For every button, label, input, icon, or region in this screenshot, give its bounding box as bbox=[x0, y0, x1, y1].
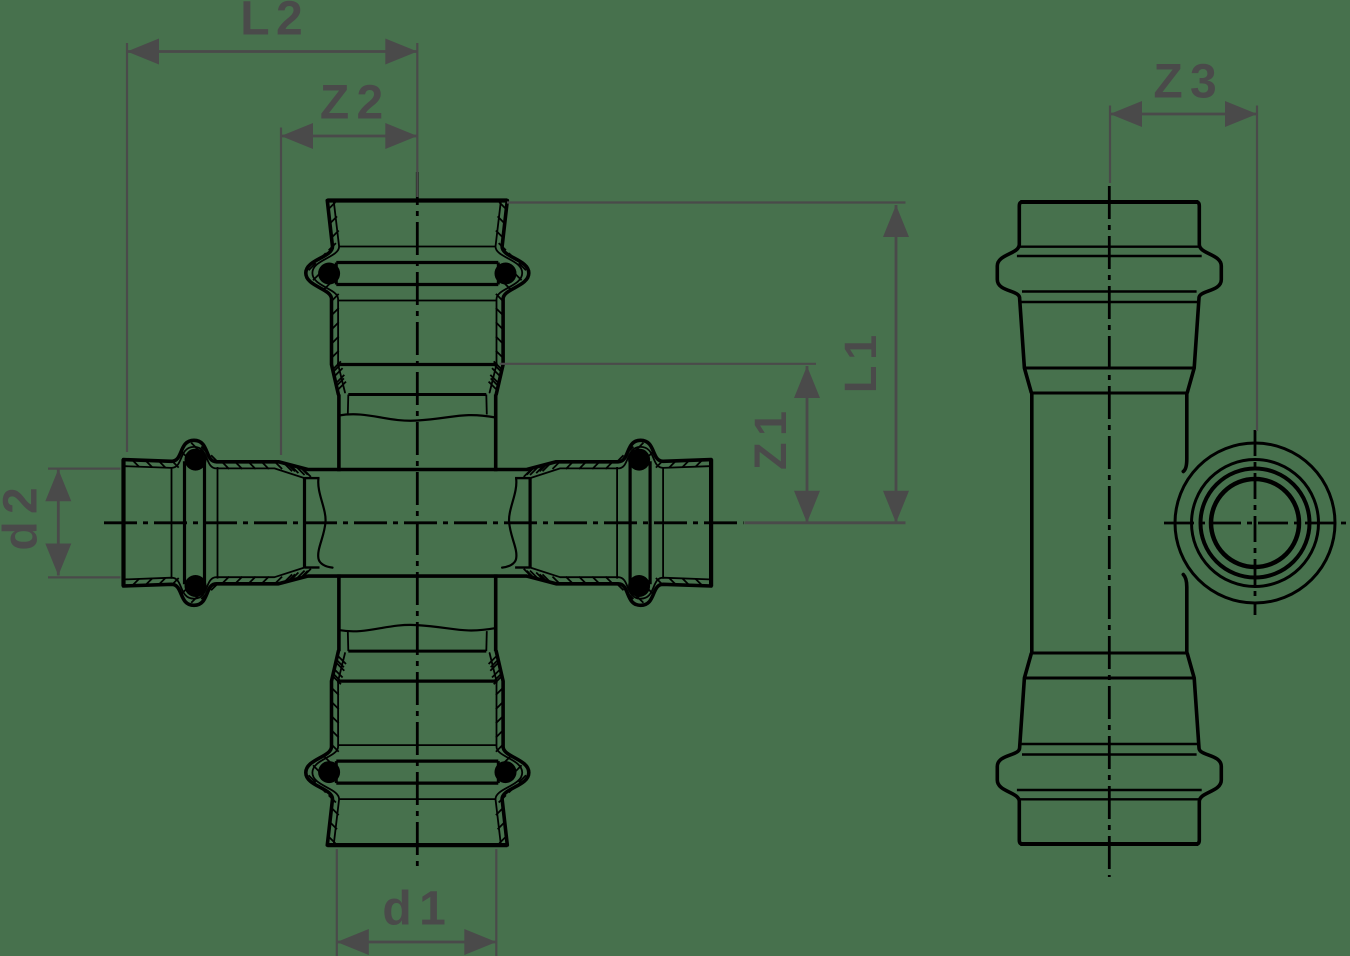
right socket inner wall bbox=[530, 568, 709, 599]
left socket tube stop line bbox=[303, 478, 306, 567]
left socket O-ring groove right bbox=[203, 461, 206, 584]
dimension L2 line bbox=[127, 50, 417, 53]
right view top socket shoulder line bbox=[1019, 245, 1199, 247]
left socket outer wall bbox=[124, 440, 308, 469]
left socket (d2, sectioned) bbox=[124, 440, 333, 605]
side outlet bore circle bbox=[1211, 479, 1299, 567]
left socket taper hatching bbox=[284, 463, 293, 472]
right socket taper hatching bbox=[543, 574, 552, 583]
svg-text:d 1: d 1 bbox=[382, 883, 445, 936]
svg-text:Z 1: Z 1 bbox=[745, 412, 796, 470]
dimension Z2 line bbox=[281, 135, 417, 138]
break line on vertical tube bbox=[339, 625, 496, 631]
vertical tube right edge bbox=[494, 395, 498, 472]
dimension d1 extension line left bbox=[336, 849, 338, 956]
left socket mouth edge bbox=[121, 459, 125, 586]
dimension L1 extension line top bbox=[507, 201, 906, 203]
break line on left arm tube bbox=[502, 478, 516, 567]
svg-text:d 2: d 2 bbox=[0, 489, 48, 551]
left socket inner wall bbox=[126, 568, 305, 599]
extension overlay line bbox=[416, 43, 418, 123]
bottom socket outer wall bbox=[306, 651, 339, 845]
top socket bore stop line bbox=[348, 393, 486, 396]
right view bottom socket taper top line bbox=[1025, 677, 1195, 680]
left socket taper hatching bbox=[284, 574, 293, 583]
centerline extension gray bbox=[745, 521, 906, 524]
right view bottom socket outer profile bbox=[1187, 654, 1221, 845]
right socket O-ring groove left bbox=[648, 461, 651, 584]
centerline vertical, outlet bbox=[1254, 430, 1257, 615]
bottom socket wall hatching bbox=[328, 836, 335, 843]
right view tube right edge lower bbox=[1183, 575, 1187, 654]
top socket taper hatching bbox=[494, 361, 503, 370]
right socket wall hatching bbox=[695, 579, 702, 586]
dimension L1 line bbox=[895, 205, 898, 523]
bottom socket wall hatching bbox=[499, 836, 506, 843]
bottom socket mouth edge bbox=[327, 843, 507, 847]
top socket (d1, sectioned) bbox=[306, 201, 529, 421]
top socket tube stop line bbox=[337, 363, 498, 366]
top socket taper hatching bbox=[332, 361, 341, 370]
break line on left arm tube bbox=[318, 478, 332, 567]
dimension L2 extension line left bbox=[126, 43, 128, 452]
dimension Z2 extension line left bbox=[280, 128, 282, 456]
right view bottom socket bead bottom line bbox=[1022, 753, 1197, 755]
bottom socket tube stop line bbox=[337, 679, 498, 682]
top socket O-ring groove top bbox=[336, 261, 498, 264]
right socket inner wall bbox=[530, 447, 709, 478]
break line on vertical tube bbox=[339, 414, 496, 420]
bottom socket bore stop line bbox=[348, 650, 486, 653]
right view bottom socket taper bottom line bbox=[1031, 652, 1187, 655]
dimension d1 line bbox=[337, 941, 497, 944]
centerline horizontal, left view bbox=[104, 521, 744, 524]
bottom socket O-ring seal bbox=[495, 761, 517, 783]
bottom socket bead shoulder line bbox=[339, 798, 495, 800]
right view bottom socket bead top line bbox=[1017, 789, 1202, 791]
left socket wall hatching bbox=[132, 460, 139, 467]
svg-text:Z 2: Z 2 bbox=[320, 77, 382, 130]
right socket taper hatching bbox=[543, 463, 552, 472]
centerline vertical, right view bbox=[1108, 186, 1111, 877]
bottom socket (d1, sectioned, mirrored) bbox=[306, 625, 529, 845]
right view top socket outer profile bbox=[1187, 202, 1221, 393]
left socket inner wall bbox=[126, 447, 305, 478]
right socket mouth edge bbox=[709, 459, 713, 586]
right socket (d2, sectioned, mirrored) bbox=[502, 440, 711, 605]
left socket wall hatching bbox=[132, 579, 139, 586]
dimension d1 extension line right bbox=[495, 849, 497, 956]
centerline vertical, left view bbox=[416, 172, 419, 869]
right socket O-ring seal bbox=[628, 575, 650, 597]
left socket O-ring seal bbox=[185, 575, 207, 597]
top socket outer wall bbox=[306, 201, 339, 395]
left socket O-ring groove left bbox=[183, 461, 186, 584]
right view top socket bbox=[997, 202, 1221, 393]
left socket outer wall bbox=[124, 576, 308, 605]
right view top socket mouth edge bbox=[1020, 200, 1198, 204]
left socket O-ring seal bbox=[185, 449, 207, 471]
dimension L2/Z2 extension line right bbox=[416, 43, 418, 197]
dimension d2 extension line bottom bbox=[48, 576, 121, 578]
top socket inner wall bbox=[490, 203, 523, 393]
dimension Z1 extension line top bbox=[500, 363, 817, 365]
bottom socket taper hatching bbox=[332, 676, 341, 685]
top socket O-ring seal bbox=[495, 263, 517, 285]
top socket inner wall bbox=[312, 203, 345, 393]
side outlet circle ring 3 bbox=[1201, 469, 1310, 578]
bottom socket lower shoulder line bbox=[338, 744, 496, 746]
side outlet circle outer bbox=[1175, 443, 1335, 603]
bottom socket O-ring seal bbox=[318, 761, 340, 783]
right view top socket bead bottom line bbox=[1022, 290, 1197, 292]
right view bottom socket outer profile bbox=[997, 654, 1031, 845]
right view bottom socket shoulder line bbox=[1019, 798, 1199, 800]
horizontal tube bottom edge bbox=[308, 574, 528, 578]
top socket bead shoulder line bbox=[339, 246, 495, 248]
right view bottom socket (mirrored) bbox=[997, 653, 1221, 844]
right view tube left edge bbox=[1030, 393, 1034, 653]
top socket wall hatching bbox=[328, 202, 335, 209]
right socket outer wall bbox=[528, 440, 712, 469]
right view top socket bead top line bbox=[1017, 255, 1202, 257]
top socket O-ring groove bottom bbox=[336, 283, 498, 286]
bottom socket inner wall bbox=[312, 653, 345, 843]
right socket O-ring groove right bbox=[628, 461, 631, 584]
right socket bead shoulder lines bbox=[662, 467, 664, 579]
right view top socket taper top line bbox=[1025, 367, 1195, 370]
right view bottom socket lower shoulder line bbox=[1021, 743, 1197, 745]
top socket wall hatching bbox=[499, 202, 506, 209]
side outlet circle ring 2 bbox=[1192, 460, 1319, 587]
right view tube right edge upper bbox=[1183, 393, 1187, 472]
right view top socket taper bottom line bbox=[1031, 392, 1187, 395]
left socket bead shoulder lines bbox=[171, 467, 173, 579]
top socket lower shoulder line bbox=[338, 300, 496, 302]
bottom socket O-ring groove top bbox=[336, 781, 498, 784]
right view bottom socket mouth edge bbox=[1020, 842, 1198, 846]
svg-text:L 2: L 2 bbox=[240, 0, 301, 46]
right socket outer wall bbox=[528, 576, 712, 605]
right view top socket outer profile bbox=[997, 202, 1031, 393]
dimension Z3 extension line left bbox=[1109, 106, 1111, 184]
top socket O-ring seal bbox=[318, 263, 340, 285]
right view top socket lower shoulder line bbox=[1021, 301, 1197, 303]
dimension Z3 extension line right bbox=[1256, 106, 1258, 432]
bottom socket O-ring groove bottom bbox=[336, 759, 498, 762]
dimension Z1 line bbox=[806, 366, 809, 523]
bottom socket inner wall bbox=[490, 653, 523, 843]
bottom socket taper hatching bbox=[494, 676, 503, 685]
dimension Z3 line bbox=[1110, 113, 1257, 116]
top socket outer wall bbox=[496, 201, 529, 395]
dimension d2 extension line top bbox=[48, 468, 121, 470]
right socket wall hatching bbox=[695, 460, 702, 467]
centerline horizontal, outlet bbox=[1164, 522, 1350, 525]
dimension d2 line bbox=[57, 469, 60, 575]
vertical tube left edge bbox=[337, 395, 341, 472]
right socket O-ring seal bbox=[628, 449, 650, 471]
horizontal tube top edge bbox=[308, 468, 528, 472]
top socket mouth edge bbox=[327, 198, 507, 202]
svg-text:Z 3: Z 3 bbox=[1153, 55, 1215, 108]
right socket tube stop line bbox=[528, 478, 531, 567]
bottom socket outer wall bbox=[496, 651, 529, 845]
svg-text:L 1: L 1 bbox=[835, 336, 886, 393]
